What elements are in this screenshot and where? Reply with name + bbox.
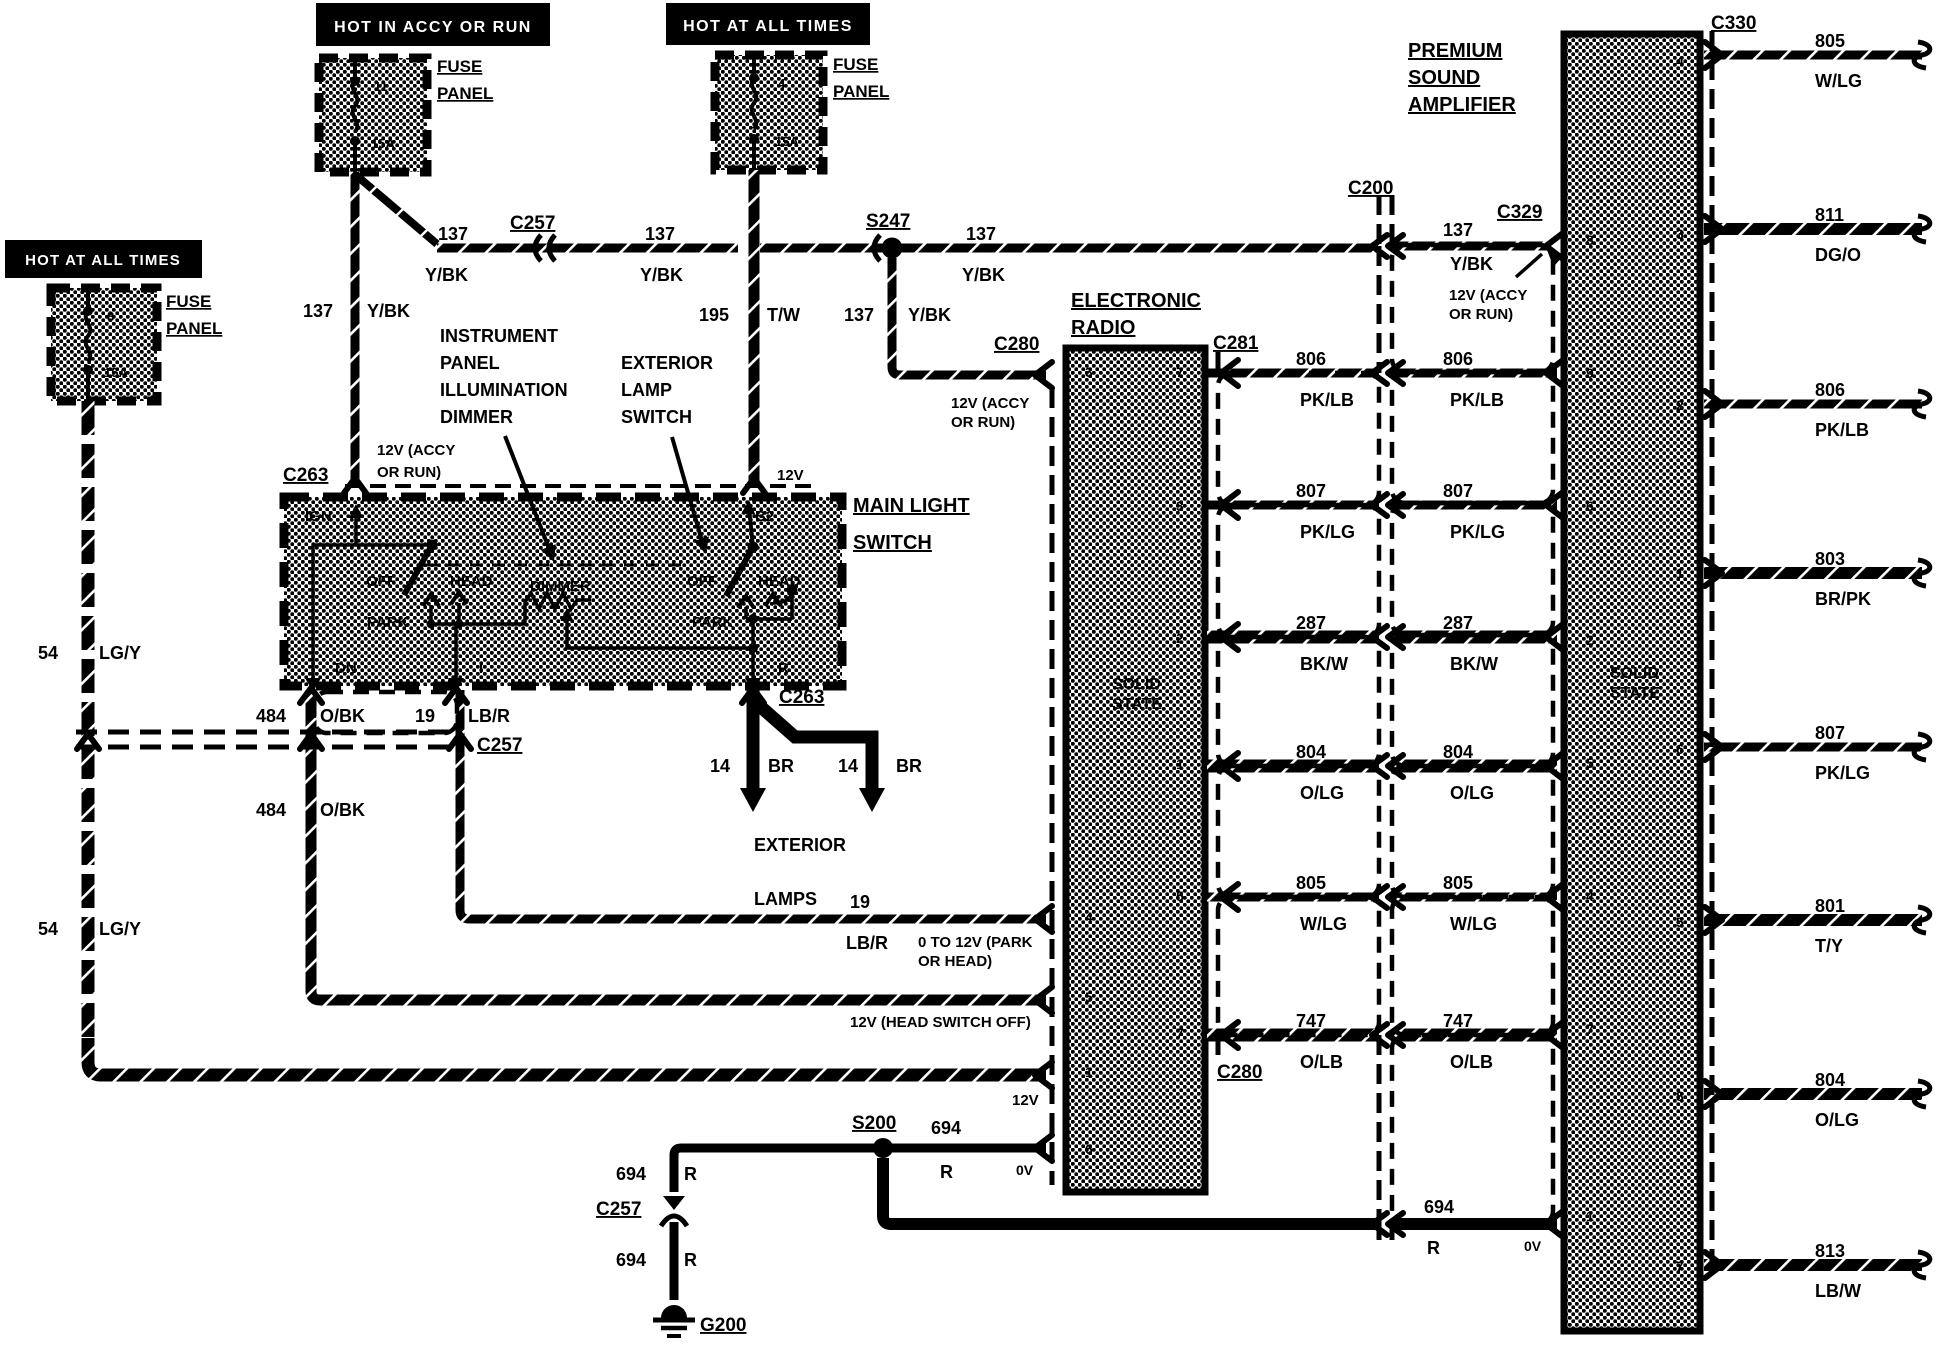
- svg-text:FUSE: FUSE: [437, 57, 482, 76]
- svg-text:7: 7: [1176, 364, 1184, 380]
- svg-text:8: 8: [107, 309, 114, 324]
- svg-text:15A: 15A: [371, 136, 395, 151]
- svg-text:R: R: [684, 1164, 697, 1184]
- svg-text:LB/R: LB/R: [468, 706, 510, 726]
- svg-text:6: 6: [1085, 1141, 1093, 1157]
- svg-text:3: 3: [1176, 498, 1184, 514]
- svg-text:805: 805: [1443, 873, 1473, 893]
- svg-text:PARK: PARK: [692, 614, 734, 631]
- svg-text:DN: DN: [335, 660, 357, 677]
- svg-text:14: 14: [710, 756, 730, 776]
- svg-text:DIMMER: DIMMER: [440, 407, 513, 427]
- svg-text:0V: 0V: [1524, 1238, 1542, 1254]
- svg-text:O/LB: O/LB: [1300, 1052, 1343, 1072]
- svg-text:MAIN LIGHT: MAIN LIGHT: [853, 495, 970, 517]
- svg-text:DIMMER: DIMMER: [530, 578, 591, 595]
- svg-text:5: 5: [1676, 914, 1684, 930]
- svg-text:C280: C280: [1217, 1062, 1262, 1083]
- svg-text:9: 9: [1586, 365, 1594, 381]
- svg-text:I: I: [479, 660, 483, 677]
- svg-text:INSTRUMENT: INSTRUMENT: [440, 326, 558, 346]
- svg-text:287: 287: [1443, 613, 1473, 633]
- svg-text:C329: C329: [1497, 202, 1542, 223]
- svg-text:803: 803: [1815, 549, 1845, 569]
- svg-text:1: 1: [1085, 1064, 1093, 1080]
- svg-text:1: 1: [1176, 756, 1184, 772]
- svg-text:1: 1: [1586, 1208, 1594, 1224]
- svg-text:4: 4: [1676, 53, 1684, 69]
- svg-text:W/LG: W/LG: [1815, 71, 1862, 91]
- svg-text:S200: S200: [852, 1113, 896, 1134]
- svg-text:7: 7: [1586, 1021, 1594, 1037]
- svg-text:8: 8: [1586, 232, 1594, 248]
- svg-text:C281: C281: [1213, 333, 1259, 354]
- svg-text:T/Y: T/Y: [1815, 936, 1843, 956]
- svg-text:12V (ACCY: 12V (ACCY: [1449, 287, 1527, 304]
- svg-text:B2: B2: [755, 508, 774, 525]
- svg-text:12V (HEAD SWITCH OFF): 12V (HEAD SWITCH OFF): [850, 1014, 1031, 1031]
- svg-text:O/LG: O/LG: [1450, 783, 1494, 803]
- svg-text:804: 804: [1296, 742, 1326, 762]
- svg-text:137: 137: [966, 224, 996, 244]
- svg-text:8: 8: [1676, 1088, 1684, 1104]
- svg-text:C280: C280: [994, 334, 1039, 355]
- svg-text:PARK: PARK: [367, 614, 409, 631]
- svg-text:PANEL: PANEL: [437, 84, 493, 103]
- svg-text:195: 195: [699, 305, 729, 325]
- svg-text:694: 694: [931, 1118, 961, 1138]
- svg-text:SWITCH: SWITCH: [853, 532, 932, 554]
- svg-text:137: 137: [303, 301, 333, 321]
- svg-text:7: 7: [1176, 1025, 1184, 1041]
- svg-text:0V: 0V: [1016, 1162, 1034, 1178]
- svg-text:LB/R: LB/R: [846, 933, 888, 953]
- svg-text:484: 484: [256, 800, 286, 820]
- svg-text:C330: C330: [1711, 13, 1756, 34]
- svg-text:6: 6: [1586, 498, 1594, 514]
- svg-text:5: 5: [1085, 989, 1093, 1005]
- svg-text:PANEL: PANEL: [440, 353, 500, 373]
- svg-text:R: R: [684, 1250, 697, 1270]
- svg-text:BK/W: BK/W: [1450, 654, 1498, 674]
- svg-text:LB/W: LB/W: [1815, 1281, 1861, 1301]
- svg-text:HOT AT ALL TIMES: HOT AT ALL TIMES: [683, 18, 853, 35]
- svg-text:OR HEAD): OR HEAD): [918, 953, 992, 970]
- svg-text:3: 3: [1085, 364, 1093, 380]
- svg-text:PK/LG: PK/LG: [1300, 522, 1355, 542]
- svg-text:0 TO 12V (PARK: 0 TO 12V (PARK: [918, 934, 1033, 951]
- svg-text:747: 747: [1296, 1011, 1326, 1031]
- svg-text:12V (ACCY: 12V (ACCY: [951, 395, 1029, 412]
- svg-text:807: 807: [1296, 481, 1326, 501]
- svg-text:12V: 12V: [1012, 1092, 1039, 1109]
- svg-text:PANEL: PANEL: [166, 319, 222, 338]
- svg-text:12V: 12V: [777, 467, 804, 484]
- svg-text:HOT AT ALL TIMES: HOT AT ALL TIMES: [25, 252, 181, 269]
- svg-text:SWITCH: SWITCH: [621, 407, 692, 427]
- svg-text:6: 6: [1676, 741, 1684, 757]
- svg-text:LG/Y: LG/Y: [99, 643, 141, 663]
- svg-text:5: 5: [1176, 888, 1184, 904]
- svg-text:3: 3: [1676, 226, 1684, 242]
- svg-text:BR: BR: [768, 756, 794, 776]
- svg-text:OR RUN): OR RUN): [1449, 306, 1513, 323]
- svg-text:PREMIUM: PREMIUM: [1408, 40, 1502, 62]
- svg-text:FUSE: FUSE: [166, 292, 211, 311]
- svg-text:C263: C263: [779, 687, 824, 708]
- svg-text:HEAD: HEAD: [450, 573, 493, 590]
- svg-text:805: 805: [1815, 31, 1845, 51]
- svg-text:BK/W: BK/W: [1300, 654, 1348, 674]
- svg-text:PANEL: PANEL: [833, 82, 889, 101]
- svg-text:AMPLIFIER: AMPLIFIER: [1408, 94, 1516, 116]
- svg-text:O/BK: O/BK: [320, 706, 365, 726]
- svg-text:SOLID: SOLID: [1112, 676, 1161, 693]
- svg-text:OFF: OFF: [687, 573, 717, 590]
- svg-text:W/LG: W/LG: [1300, 914, 1347, 934]
- svg-text:Y/BK: Y/BK: [640, 265, 683, 285]
- svg-text:BR/PK: BR/PK: [1815, 589, 1871, 609]
- svg-text:ELECTRONIC: ELECTRONIC: [1071, 290, 1201, 312]
- svg-text:PK/LB: PK/LB: [1450, 390, 1504, 410]
- svg-text:SOUND: SOUND: [1408, 67, 1480, 89]
- svg-text:O/LB: O/LB: [1450, 1052, 1493, 1072]
- svg-text:694: 694: [1424, 1197, 1454, 1217]
- svg-text:Y/BK: Y/BK: [1450, 254, 1493, 274]
- svg-text:813: 813: [1815, 1241, 1845, 1261]
- svg-text:C200: C200: [1348, 178, 1393, 199]
- svg-text:S247: S247: [866, 211, 910, 232]
- svg-text:RADIO: RADIO: [1071, 317, 1135, 339]
- svg-text:54: 54: [38, 919, 58, 939]
- svg-text:C257: C257: [477, 735, 522, 756]
- svg-text:807: 807: [1443, 481, 1473, 501]
- svg-text:OR RUN): OR RUN): [951, 414, 1015, 431]
- svg-text:T/W: T/W: [767, 305, 800, 325]
- svg-text:807: 807: [1815, 723, 1845, 743]
- svg-text:C257: C257: [596, 1199, 641, 1220]
- svg-text:4: 4: [778, 76, 786, 91]
- svg-text:287: 287: [1296, 613, 1326, 633]
- svg-text:C257: C257: [510, 213, 555, 234]
- svg-text:806: 806: [1443, 349, 1473, 369]
- svg-text:FUSE: FUSE: [833, 55, 878, 74]
- svg-text:484: 484: [256, 706, 286, 726]
- svg-text:Y/BK: Y/BK: [962, 265, 1005, 285]
- svg-text:694: 694: [616, 1250, 646, 1270]
- svg-text:PK/LB: PK/LB: [1815, 420, 1869, 440]
- svg-text:15A: 15A: [104, 365, 128, 380]
- svg-text:137: 137: [1443, 220, 1473, 240]
- svg-text:O/LG: O/LG: [1300, 783, 1344, 803]
- svg-text:4: 4: [1586, 888, 1594, 904]
- svg-text:HOT IN ACCY OR RUN: HOT IN ACCY OR RUN: [334, 19, 532, 36]
- svg-text:806: 806: [1815, 380, 1845, 400]
- svg-text:Y/BK: Y/BK: [908, 305, 951, 325]
- svg-text:OR RUN): OR RUN): [377, 464, 441, 481]
- svg-text:2: 2: [1676, 397, 1684, 413]
- svg-text:7: 7: [1676, 1258, 1684, 1274]
- svg-text:806: 806: [1296, 349, 1326, 369]
- svg-text:12V (ACCY: 12V (ACCY: [377, 442, 455, 459]
- svg-text:EXTERIOR: EXTERIOR: [621, 353, 713, 373]
- svg-text:DG/O: DG/O: [1815, 245, 1861, 265]
- svg-text:LG/Y: LG/Y: [99, 919, 141, 939]
- svg-text:137: 137: [438, 224, 468, 244]
- svg-text:694: 694: [616, 1164, 646, 1184]
- svg-text:805: 805: [1296, 873, 1326, 893]
- svg-text:804: 804: [1815, 1070, 1845, 1090]
- svg-text:O/LG: O/LG: [1815, 1110, 1859, 1130]
- svg-text:11: 11: [374, 79, 388, 94]
- svg-text:19: 19: [415, 706, 435, 726]
- svg-text:15A: 15A: [775, 134, 799, 149]
- svg-text:G200: G200: [700, 1315, 746, 1336]
- svg-text:BR: BR: [896, 756, 922, 776]
- svg-text:W/LG: W/LG: [1450, 914, 1497, 934]
- svg-text:R: R: [778, 660, 789, 677]
- svg-text:2: 2: [1586, 632, 1594, 648]
- svg-text:54: 54: [38, 643, 58, 663]
- svg-text:SOLID: SOLID: [1610, 665, 1659, 682]
- svg-text:LAMPS: LAMPS: [754, 889, 817, 909]
- svg-text:HEAD: HEAD: [758, 573, 801, 590]
- svg-text:14: 14: [838, 756, 858, 776]
- svg-text:ILLUMINATION: ILLUMINATION: [440, 380, 568, 400]
- svg-text:STATE: STATE: [1112, 696, 1162, 713]
- svg-text:137: 137: [844, 305, 874, 325]
- svg-text:Y/BK: Y/BK: [425, 265, 468, 285]
- svg-text:STATE: STATE: [1610, 685, 1660, 702]
- svg-text:EXTERIOR: EXTERIOR: [754, 835, 846, 855]
- svg-text:LAMP: LAMP: [621, 380, 672, 400]
- svg-text:747: 747: [1443, 1011, 1473, 1031]
- svg-text:804: 804: [1443, 742, 1473, 762]
- svg-text:PK/LG: PK/LG: [1815, 763, 1870, 783]
- svg-text:C263: C263: [283, 465, 328, 486]
- svg-text:811: 811: [1815, 205, 1844, 225]
- svg-text:1: 1: [1676, 565, 1684, 581]
- svg-text:R: R: [1427, 1238, 1440, 1258]
- svg-text:2: 2: [1176, 630, 1184, 646]
- svg-text:5: 5: [1586, 755, 1594, 771]
- svg-text:OFF: OFF: [366, 573, 396, 590]
- svg-text:PK/LG: PK/LG: [1450, 522, 1505, 542]
- svg-text:19: 19: [850, 892, 870, 912]
- svg-text:IGN: IGN: [305, 508, 332, 525]
- svg-text:PK/LB: PK/LB: [1300, 390, 1354, 410]
- svg-text:Y/BK: Y/BK: [367, 301, 410, 321]
- svg-text:R: R: [940, 1162, 953, 1182]
- svg-text:O/BK: O/BK: [320, 800, 365, 820]
- svg-text:137: 137: [645, 224, 675, 244]
- svg-text:801: 801: [1815, 896, 1845, 916]
- svg-text:4: 4: [1085, 909, 1093, 925]
